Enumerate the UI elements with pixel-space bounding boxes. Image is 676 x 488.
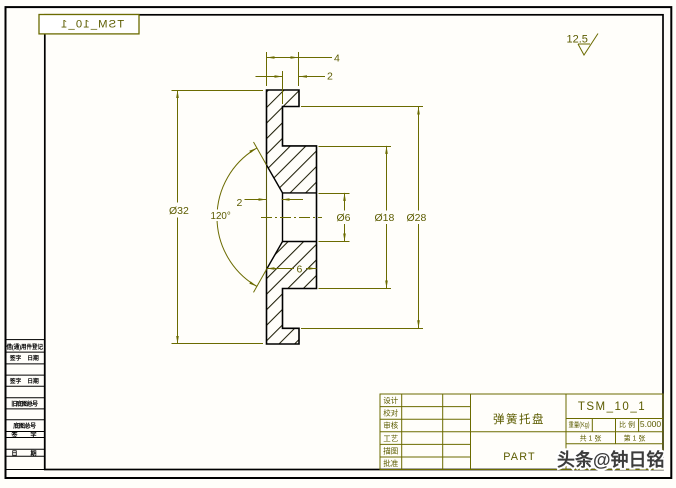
countersink opening silhouette on left face (thin) (266, 165, 268, 269)
svg-text:期: 期 (30, 449, 36, 457)
dia32 arrows (176, 90, 179, 98)
dim2 countersink (259, 198, 267, 201)
svg-text:日: 日 (11, 450, 17, 457)
svg-text:底图总号: 底图总号 (13, 422, 36, 430)
svg-text:2: 2 (237, 197, 243, 209)
svg-text:日期: 日期 (27, 377, 39, 385)
countersink cone edges (267, 165, 317, 269)
svg-text:审核: 审核 (383, 420, 398, 430)
dim 2 top (256, 76, 283, 78)
dim6 (267, 267, 275, 270)
svg-text:签字: 签字 (9, 354, 22, 362)
dia32 (177, 91, 179, 203)
svg-text:120°: 120° (211, 211, 231, 222)
dia28 (418, 107, 420, 211)
svg-text:Ø18: Ø18 (375, 212, 395, 224)
dia18 (386, 146, 388, 211)
part outline (267, 90, 317, 344)
svg-text:5.000: 5.000 (640, 419, 662, 429)
dim 2 countersink (245, 199, 267, 201)
svg-text:PART: PART (503, 451, 536, 463)
title label box top-left (mirrored text) (39, 15, 139, 34)
svg-text:2: 2 (327, 71, 333, 83)
dim4 (267, 56, 275, 59)
svg-text:设计: 设计 (383, 395, 398, 405)
dia18 (385, 146, 388, 154)
svg-text:Ø32: Ø32 (169, 205, 189, 217)
cone extension lines (254, 142, 267, 165)
svg-text:4: 4 (334, 52, 340, 64)
120 dim text background (209, 210, 231, 222)
svg-text:6: 6 (297, 264, 303, 276)
svg-text:批准: 批准 (383, 458, 398, 468)
svg-text:旧底图总号: 旧底图总号 (11, 400, 38, 408)
svg-text:比 例: 比 例 (619, 420, 635, 429)
svg-text:重量(Kg): 重量(Kg) (569, 421, 590, 429)
svg-text:描图: 描图 (383, 445, 398, 455)
title block (380, 394, 663, 470)
dimension texts (169, 52, 427, 275)
svg-text:Ø28: Ø28 (407, 212, 427, 224)
svg-text:Ø6: Ø6 (337, 212, 351, 224)
center line (261, 217, 322, 219)
hatch fill (material) (267, 90, 317, 344)
svg-text:共 1 张: 共 1 张 (580, 434, 602, 443)
dia6 arrows outward (343, 193, 346, 201)
dim 4 top (267, 57, 333, 59)
svg-text:字: 字 (30, 431, 36, 439)
dia28 (417, 107, 420, 115)
watermark (557, 449, 665, 470)
dia6 (344, 193, 346, 211)
svg-text:工艺: 工艺 (383, 434, 398, 443)
svg-text:TSM_10_1: TSM_10_1 (578, 401, 646, 413)
arrows (176, 56, 420, 344)
120 arc (217, 148, 257, 287)
120 arc arrows (249, 148, 257, 153)
svg-text:弹簧托盘: 弹簧托盘 (493, 412, 545, 426)
svg-text:TSM_10_1: TSM_10_1 (60, 19, 124, 31)
svg-text:日期: 日期 (27, 354, 39, 362)
dim2 top: outside arrows pointing in (275, 75, 283, 78)
svg-text:签字: 签字 (9, 377, 22, 385)
svg-text:头条@钟日铭: 头条@钟日铭 (557, 449, 665, 470)
surface roughness note 12.5 (567, 34, 599, 56)
svg-text:借(通)用件登记: 借(通)用件登记 (6, 343, 44, 351)
dim 6 hub (267, 268, 295, 270)
left margin revision table (6, 340, 45, 470)
svg-text:签: 签 (10, 431, 18, 439)
svg-text:第 1 张: 第 1 张 (624, 434, 646, 443)
svg-text:校对: 校对 (383, 408, 398, 418)
